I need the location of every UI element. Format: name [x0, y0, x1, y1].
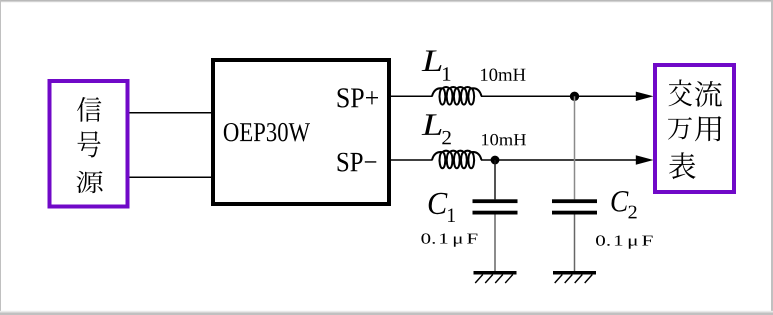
wire signal source to OEP30W lower [130, 176, 214, 178]
capacitor C2 plates [552, 199, 597, 214]
capacitor C1 lead lower [494, 215, 496, 272]
ground symbol (C1) [474, 271, 517, 283]
page frame left edge [0, 0, 1, 315]
label 万 (AC multimeter) [668, 117, 692, 139]
value label 10mH (L1) [481, 69, 526, 82]
page frame top edge [0, 0, 773, 3]
label L1 [422, 51, 451, 81]
signal source box [50, 81, 128, 207]
label 流 (AC multimeter) [695, 81, 722, 107]
pin label SP+ [338, 88, 378, 107]
label 交 (AC multimeter) [669, 79, 692, 106]
capacitor C2 lead upper [574, 96, 576, 199]
label 用 (AC multimeter) [695, 116, 722, 141]
pin label SP- [338, 153, 377, 172]
wire signal source to OEP30W upper [130, 112, 214, 114]
wire SP+ from box to L1 [391, 95, 433, 97]
label OEP30W [224, 123, 310, 142]
label C2 [612, 191, 637, 218]
page frame right edge [771, 0, 773, 315]
inductor L2 coil [432, 151, 482, 169]
label L2 [422, 114, 451, 144]
label C1 [429, 193, 455, 222]
ground symbol (C2) [553, 271, 596, 283]
value label 10mH (L2) [482, 134, 526, 146]
inductor L1 coil [432, 87, 482, 105]
label 信 (signal source) [77, 97, 101, 122]
wire SP- from box to L2 [391, 159, 433, 161]
label 表 (AC multimeter) [669, 152, 695, 179]
arrow into multimeter upper [636, 92, 654, 101]
capacitor C1 lead upper [494, 160, 496, 199]
wire L2 to multimeter arrow [481, 159, 650, 161]
arrow into multimeter lower [636, 155, 654, 164]
amplifier box U1 OEP30W [213, 60, 389, 204]
junction node dot (L2 wire / C1) [491, 156, 500, 165]
capacitor C1 plates [473, 199, 518, 214]
page frame bottom edge [0, 311, 773, 315]
junction node dot (L1 wire / C2) [570, 92, 579, 101]
label 源 (signal source) [77, 171, 103, 193]
capacitor C2 lead lower [574, 215, 576, 272]
wire L1 to multimeter arrow [481, 95, 650, 97]
AC multimeter box [655, 65, 734, 192]
label 号 (signal source) [78, 131, 101, 157]
value label 0.1uF (C1) [421, 233, 477, 246]
value label 0.1uF (C2) [596, 235, 653, 248]
